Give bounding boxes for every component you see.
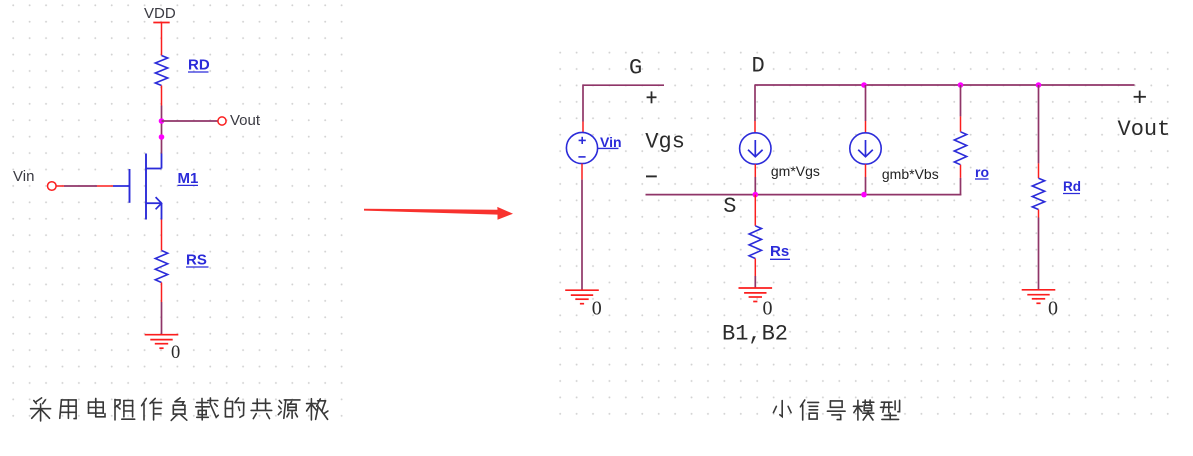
- node G wire: [583, 84, 664, 121]
- node G label: [629, 56, 642, 81]
- svg-text:RS: RS: [186, 252, 207, 269]
- wire RD to drain node: [161, 106, 163, 154]
- wire node to Vout port: [162, 120, 218, 122]
- wire Vin to gate: [56, 185, 113, 187]
- svg-text:0: 0: [763, 297, 773, 319]
- node junction dots: [159, 118, 165, 140]
- Vout annotation (right): [1118, 91, 1171, 143]
- svg-text:D: D: [752, 54, 765, 79]
- junction dots on S wire: [753, 192, 867, 198]
- ground (under Vin): [565, 290, 602, 319]
- caption: 采用电阻作负载的共源极: [31, 398, 328, 421]
- port Vin (left): [13, 168, 56, 190]
- resistor RS: [155, 251, 208, 303]
- resistor ro: [954, 85, 989, 195]
- red arrow: [364, 207, 513, 220]
- svg-text:VDD: VDD: [144, 5, 176, 22]
- caption: 小信号模型: [773, 400, 899, 420]
- svg-text:gmb*Vbs: gmb*Vbs: [882, 166, 939, 182]
- svg-text:M1: M1: [178, 170, 199, 187]
- wire RS to ground: [161, 302, 163, 335]
- power VDD: [144, 5, 176, 55]
- Vgs annotation: [645, 91, 685, 176]
- resistor RD: [155, 56, 210, 106]
- ground (under Rd): [1022, 290, 1058, 320]
- svg-text:0: 0: [1048, 297, 1058, 319]
- node D wire: [755, 84, 1135, 121]
- wire source to RS: [161, 220, 163, 251]
- svg-text:Vin: Vin: [13, 168, 34, 185]
- port Vout (left): [218, 112, 261, 129]
- transistor M1: [113, 154, 198, 220]
- resistor Rs: [749, 195, 790, 288]
- svg-text:Vout: Vout: [1118, 117, 1171, 142]
- ground (under Rs): [739, 288, 773, 319]
- current source gmb*Vbs: [850, 85, 939, 195]
- wire Vin to ground: [581, 180, 583, 291]
- svg-text:Vgs: Vgs: [645, 129, 685, 154]
- node S wire: [646, 194, 962, 196]
- svg-text:S: S: [723, 194, 736, 219]
- node B1,B2 label: [722, 321, 788, 346]
- svg-text:G: G: [629, 56, 642, 81]
- svg-text:ro: ro: [975, 164, 989, 180]
- svg-text:Vout: Vout: [230, 112, 261, 129]
- svg-text:RD: RD: [188, 57, 210, 74]
- node S label: [723, 194, 736, 219]
- current source gm*Vgs: [740, 121, 820, 195]
- svg-text:0: 0: [171, 343, 180, 363]
- resistor Rd: [1032, 85, 1081, 290]
- junction dots on D wire: [861, 82, 1041, 88]
- svg-text:Rs: Rs: [770, 243, 789, 260]
- svg-text:0: 0: [592, 297, 602, 319]
- node D label: [752, 54, 765, 79]
- svg-text:Rd: Rd: [1063, 179, 1081, 194]
- ground (left): [145, 335, 181, 364]
- voltage source Vin: [566, 122, 621, 180]
- svg-text:gm*Vgs: gm*Vgs: [771, 163, 820, 179]
- svg-text:B1,B2: B1,B2: [722, 321, 788, 346]
